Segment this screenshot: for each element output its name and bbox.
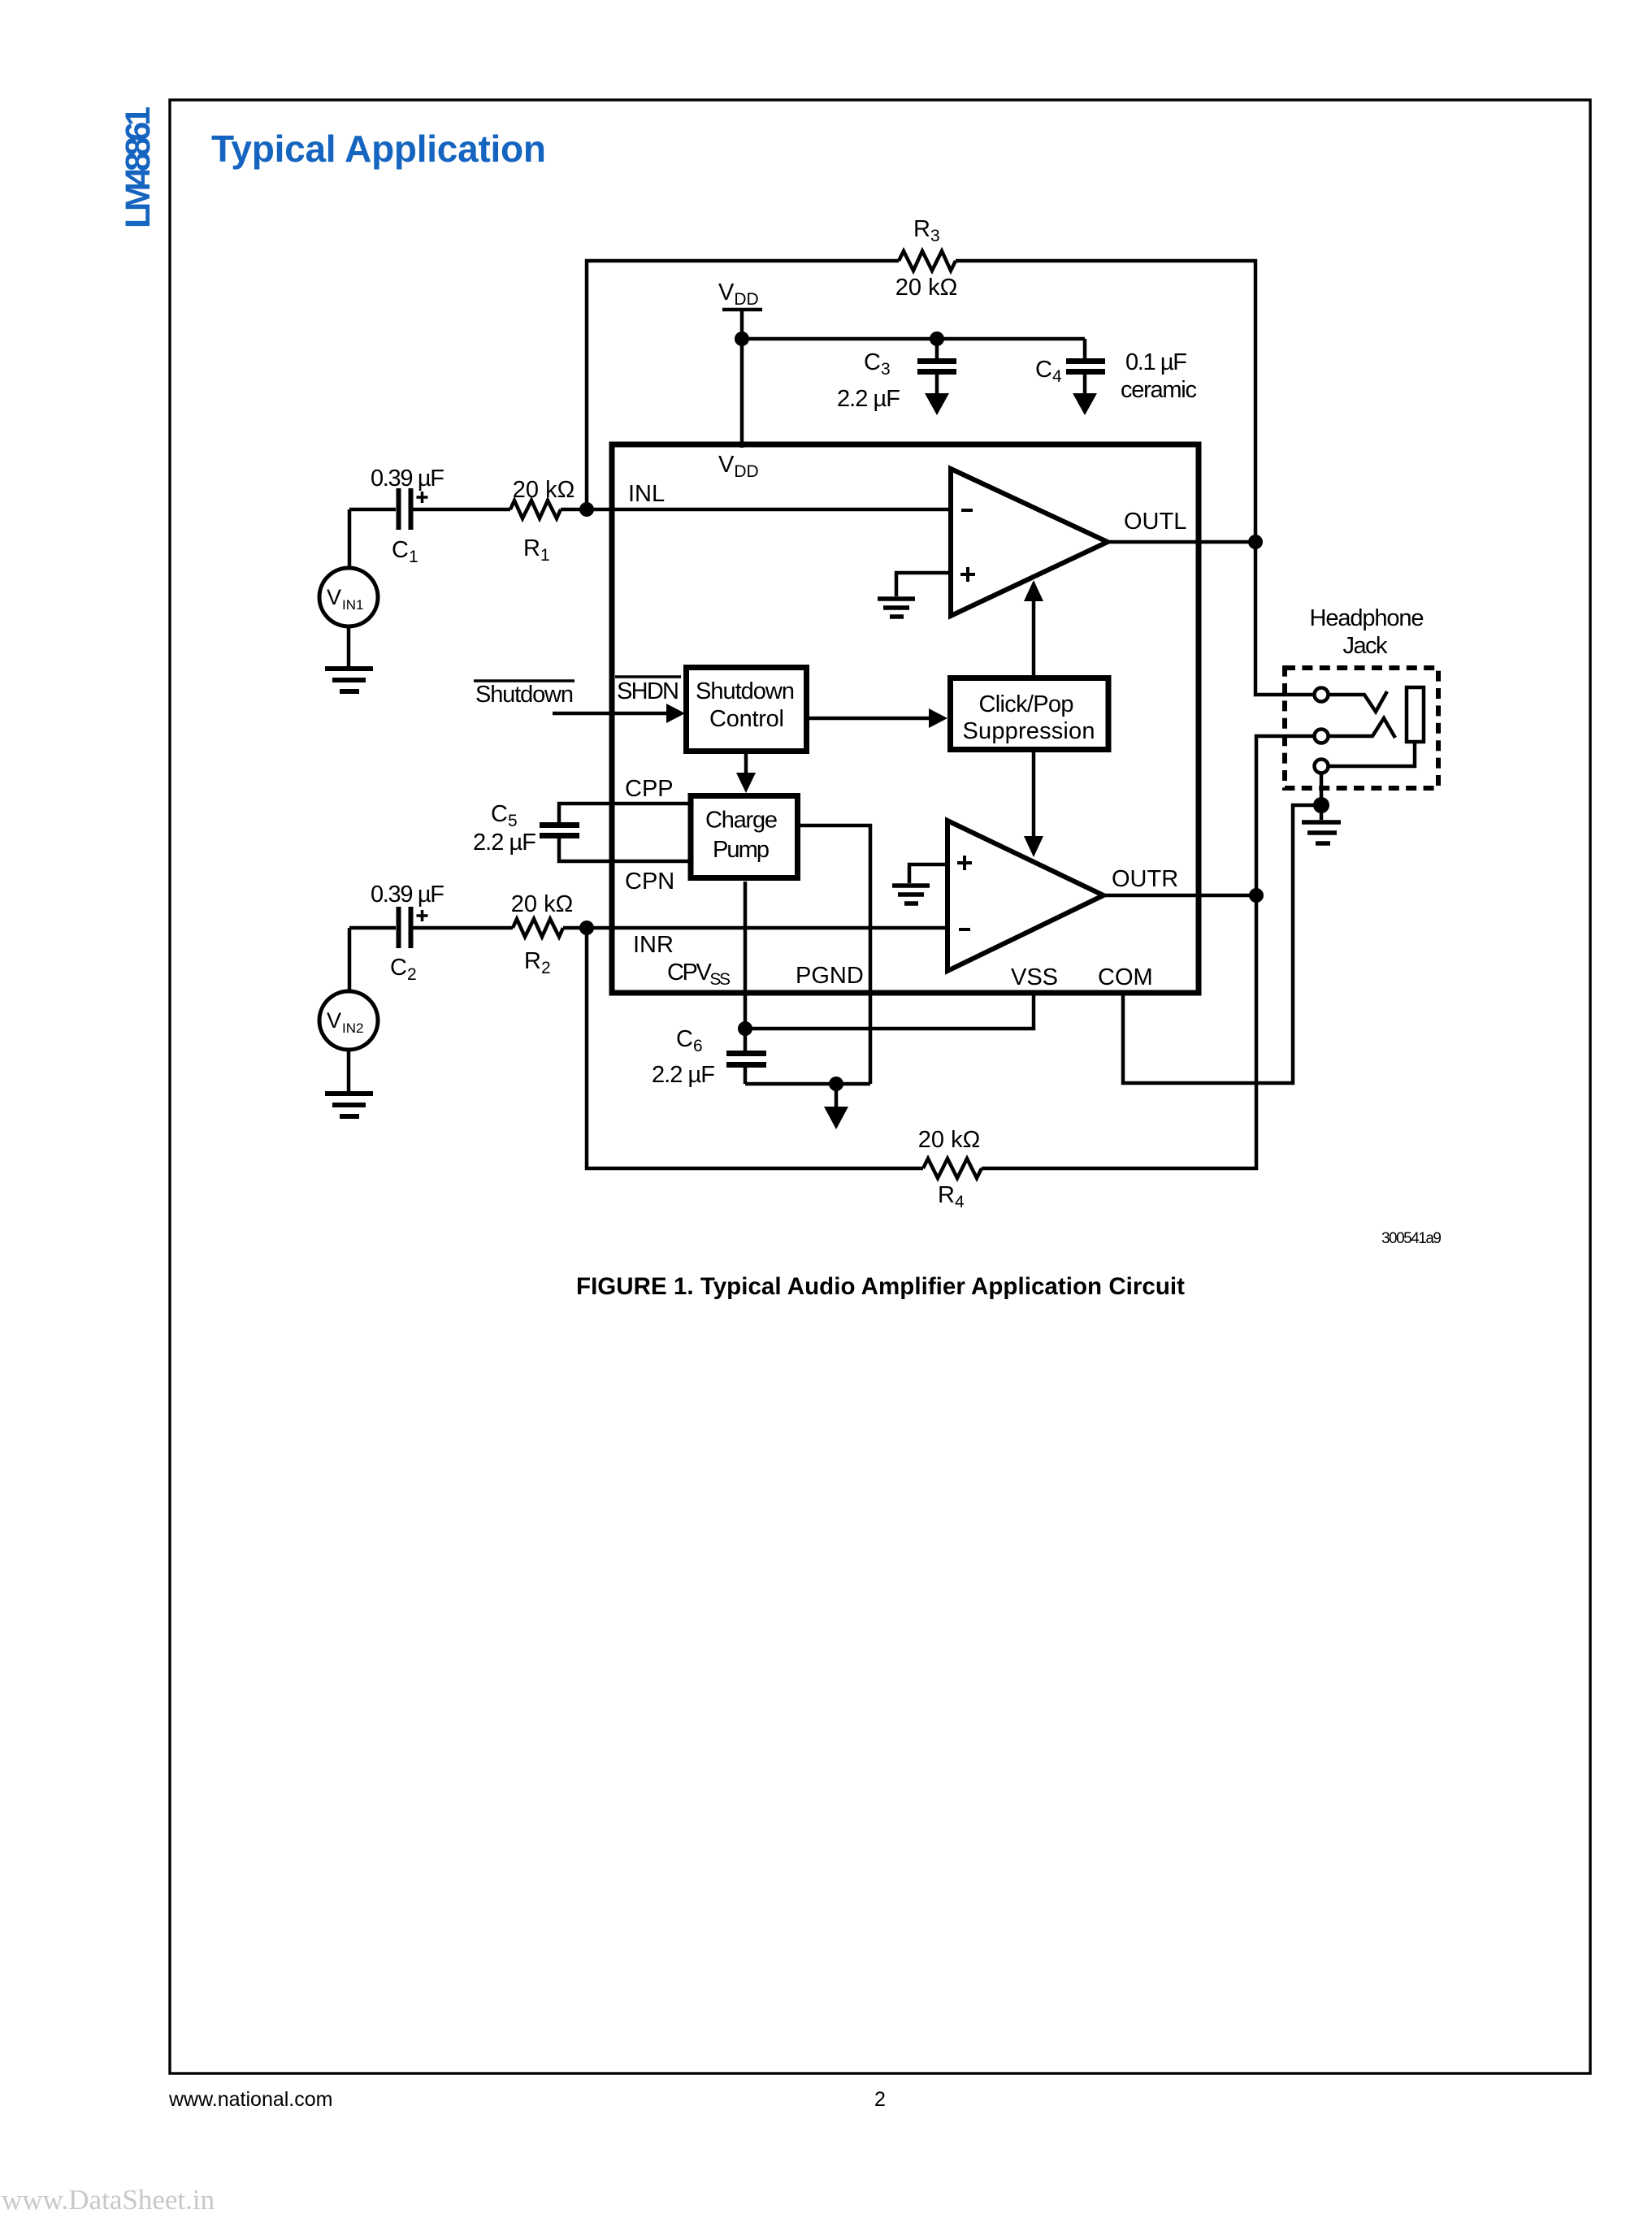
svg-text:20 kΩ: 20 kΩ xyxy=(513,477,575,503)
wire: R1 to op-amp U1A inverting input (INL) xyxy=(561,508,951,512)
jack plug body xyxy=(1329,687,1424,766)
jack tip terminal xyxy=(1315,688,1388,713)
resistor R3 xyxy=(899,251,956,271)
label C3 value xyxy=(837,386,900,412)
C2 polarity plus xyxy=(417,910,428,921)
resistor R1 xyxy=(510,500,561,518)
op-amp U1B (right channel) xyxy=(947,821,1104,971)
node: OUTR junction xyxy=(1249,888,1264,903)
ground at U1B plus input xyxy=(892,886,930,903)
svg-text:PGND: PGND xyxy=(796,963,864,989)
block: Charge Pump xyxy=(691,796,798,878)
wire: OUTL down to headphone jack tip xyxy=(1255,542,1314,695)
svg-text:www.DataSheet.in: www.DataSheet.in xyxy=(2,2184,215,2214)
pin label OUTL xyxy=(1124,509,1186,535)
capacitor C2 xyxy=(399,907,411,948)
pin label PGND xyxy=(796,963,864,989)
svg-text:2.2 µF: 2.2 µF xyxy=(837,386,900,412)
svg-text:OUTL: OUTL xyxy=(1124,509,1186,535)
wire: Charge Pump CPVSS down to C6 xyxy=(744,882,748,1051)
U1B plus sign xyxy=(957,856,972,870)
svg-text:SHDN: SHDN xyxy=(617,678,679,704)
capacitor C6 xyxy=(726,1054,766,1085)
wire: sleeve to ground xyxy=(1320,773,1324,820)
ground below jack sleeve xyxy=(1302,822,1341,843)
wire: Charge Pump to PGND pin xyxy=(800,825,870,1084)
node: sleeve ground junction xyxy=(1313,797,1329,813)
label R2 xyxy=(524,948,551,977)
svg-text:www.national.com: www.national.com xyxy=(168,2088,332,2111)
node: CPVSS / VSS junction xyxy=(738,1021,752,1036)
U1B minus sign xyxy=(959,928,970,931)
label C4 note ceramic xyxy=(1121,377,1197,403)
node: VDD junction at flag xyxy=(735,331,749,346)
ground arrow below PGND node xyxy=(824,1084,848,1129)
svg-text:300541a9: 300541a9 xyxy=(1381,1230,1442,1247)
svg-text:IN2: IN2 xyxy=(342,1020,363,1036)
svg-text:Headphone: Headphone xyxy=(1310,605,1424,631)
label C2 value 0.39 uF xyxy=(371,882,444,908)
wire: CPN to C5 xyxy=(559,838,691,861)
pin label OUTR xyxy=(1112,866,1178,892)
pin label INL xyxy=(628,481,665,507)
U1A plus sign xyxy=(960,567,975,582)
wire: R2 to op-amp U1B inverting input (INR) xyxy=(563,926,947,930)
svg-text:VSS: VSS xyxy=(1011,964,1058,990)
wire: shutdown input xyxy=(553,712,670,716)
wire: VDD drop into IC pin xyxy=(740,339,744,448)
wire: U1A non-inverting input to ground xyxy=(896,573,951,596)
wire: VDD rail xyxy=(742,337,1085,341)
wire: OUTR up to headphone jack ring xyxy=(1256,736,1314,895)
label C4 xyxy=(1035,357,1062,386)
label R2 value 20 kOhm xyxy=(511,891,574,917)
svg-text:Typical Application: Typical Application xyxy=(211,128,546,170)
wire: U1B non-inverting input to ground xyxy=(909,864,947,883)
ground arrow below C3 xyxy=(925,393,949,415)
resistor R2 xyxy=(513,919,563,937)
pin label COM xyxy=(1098,964,1153,990)
power flag VDD (top) xyxy=(718,279,762,339)
capacitor C3 xyxy=(917,339,956,395)
svg-text:CPP: CPP xyxy=(625,776,674,802)
label R4 xyxy=(938,1182,965,1211)
ground arrow below C4 xyxy=(1073,393,1097,415)
wire: CPP to C5 xyxy=(559,804,691,823)
wire: R3 top rail right segment down to OUTL node xyxy=(956,261,1255,542)
label C6 value xyxy=(652,1062,715,1088)
label R3 xyxy=(913,216,940,245)
svg-text:Jack: Jack xyxy=(1343,633,1389,659)
svg-text:Charge: Charge xyxy=(705,808,778,834)
svg-text:20 kΩ: 20 kΩ xyxy=(511,891,574,917)
svg-text:2: 2 xyxy=(874,2088,886,2111)
node: OUTL junction xyxy=(1248,535,1263,549)
pin label SHDN with overbar xyxy=(615,677,681,704)
block: Shutdown Control xyxy=(687,668,807,752)
pin label INR xyxy=(633,932,674,958)
op-amp U1A (left channel) xyxy=(951,469,1108,616)
arrow: Shutdown Control to Click/Pop Suppression xyxy=(809,708,947,728)
voltage source VIN1 xyxy=(319,509,378,667)
wire: VIN1 to C1 xyxy=(349,508,396,512)
ground below VIN2 xyxy=(325,1094,373,1116)
svg-text:V: V xyxy=(327,1008,341,1033)
IC U1 LM48861 outline xyxy=(612,444,1199,993)
svg-text:COM: COM xyxy=(1098,964,1153,990)
capacitor C1 xyxy=(399,488,411,530)
label C4 value xyxy=(1125,349,1187,375)
svg-text:0.39 µF: 0.39 µF xyxy=(371,882,444,908)
svg-text:2.2 µF: 2.2 µF xyxy=(652,1062,715,1088)
label R1 xyxy=(523,535,550,565)
label C5 value xyxy=(473,830,536,856)
pin label CPN xyxy=(625,869,674,895)
wire: R3 feedback left vertical (INL node up to top rail) xyxy=(587,261,899,509)
svg-text:ceramic: ceramic xyxy=(1121,377,1197,403)
node: VDD junction at C3 xyxy=(930,331,944,346)
svg-text:CPN: CPN xyxy=(625,869,674,895)
wire: U1B output to OUTR node xyxy=(1104,894,1256,898)
arrow: Shutdown Control down to Charge Pump xyxy=(736,754,756,793)
label Headphone Jack xyxy=(1310,605,1424,659)
svg-text:OUTR: OUTR xyxy=(1112,866,1178,892)
svg-text:20 kΩ: 20 kΩ xyxy=(918,1127,981,1153)
arrow into SHDN pin xyxy=(666,704,685,723)
label C2 xyxy=(390,955,417,984)
jack sleeve terminal xyxy=(1315,760,1329,773)
wire: C1 to R1 xyxy=(413,508,510,512)
label C1 value 0.39 uF xyxy=(371,466,444,492)
wire: C6 bottom to PGND line xyxy=(745,1082,870,1086)
wire: VSS pin to C6 node xyxy=(745,993,1034,1029)
svg-text:Suppression: Suppression xyxy=(963,718,1095,744)
node: INL junction xyxy=(579,502,594,517)
label Shutdown with overbar xyxy=(474,681,575,708)
headphone jack dashed enclosure xyxy=(1285,668,1438,788)
label C1 xyxy=(392,537,418,566)
svg-text:Shutdown: Shutdown xyxy=(696,678,795,704)
pin label VDD (inside IC) xyxy=(718,452,759,481)
svg-text:Click/Pop: Click/Pop xyxy=(979,691,1074,717)
jack ring terminal xyxy=(1315,718,1396,743)
wire: R4 feedback left vertical (INR node down to bottom rail) xyxy=(587,928,923,1168)
arrow: Click/Pop up to U1A xyxy=(1024,580,1043,678)
pin label VSS xyxy=(1011,964,1058,990)
svg-text:IN1: IN1 xyxy=(342,597,363,613)
voltage source VIN2 xyxy=(319,928,378,1092)
wire: COM pin to headphone jack sleeve xyxy=(1123,805,1316,1083)
node: INR junction xyxy=(579,921,594,935)
svg-text:0.39 µF: 0.39 µF xyxy=(371,466,444,492)
svg-text:FIGURE 1. Typical Audio Amplif: FIGURE 1. Typical Audio Amplifier Applic… xyxy=(576,1273,1185,1300)
border frame xyxy=(170,100,1590,2073)
wire: R4 bottom rail right segment up to OUTR node xyxy=(982,895,1256,1168)
label C5 xyxy=(491,801,518,830)
svg-text:2.2 µF: 2.2 µF xyxy=(473,830,536,856)
resistor R4 xyxy=(923,1159,982,1178)
svg-text:INL: INL xyxy=(628,481,665,507)
svg-text:V: V xyxy=(327,585,341,609)
label R1 value 20 kOhm xyxy=(513,477,575,503)
svg-text:Shutdown: Shutdown xyxy=(475,682,574,708)
svg-text:20 kΩ: 20 kΩ xyxy=(895,275,958,301)
capacitor C4 xyxy=(1066,339,1105,395)
node: ground junction below C6 xyxy=(829,1077,843,1091)
capacitor C5 xyxy=(540,825,579,836)
ground at U1A plus input xyxy=(878,599,915,617)
block: Click/Pop Suppression xyxy=(951,678,1109,750)
label R4 value 20 kOhm xyxy=(918,1127,981,1153)
pin label CPVSS xyxy=(667,960,731,989)
svg-text:Pump: Pump xyxy=(713,837,770,863)
C1 polarity plus xyxy=(417,492,428,503)
label C6 xyxy=(676,1026,703,1055)
wire: U1A output to OUTL node xyxy=(1108,540,1255,544)
U1A minus sign xyxy=(961,509,973,512)
wire: VIN2 to C2 xyxy=(349,926,396,930)
svg-text:Control: Control xyxy=(709,706,784,732)
pin label CPP xyxy=(625,776,674,802)
svg-text:INR: INR xyxy=(633,932,674,958)
svg-text:LM48861: LM48861 xyxy=(119,106,158,228)
label C3 xyxy=(864,349,891,379)
wire: C2 to R2 xyxy=(413,926,513,930)
label R3 value 20 kOhm xyxy=(895,275,958,301)
arrow: Click/Pop down to U1B xyxy=(1024,750,1043,857)
ground below VIN1 xyxy=(325,669,373,691)
svg-text:0.1 µF: 0.1 µF xyxy=(1125,349,1187,375)
